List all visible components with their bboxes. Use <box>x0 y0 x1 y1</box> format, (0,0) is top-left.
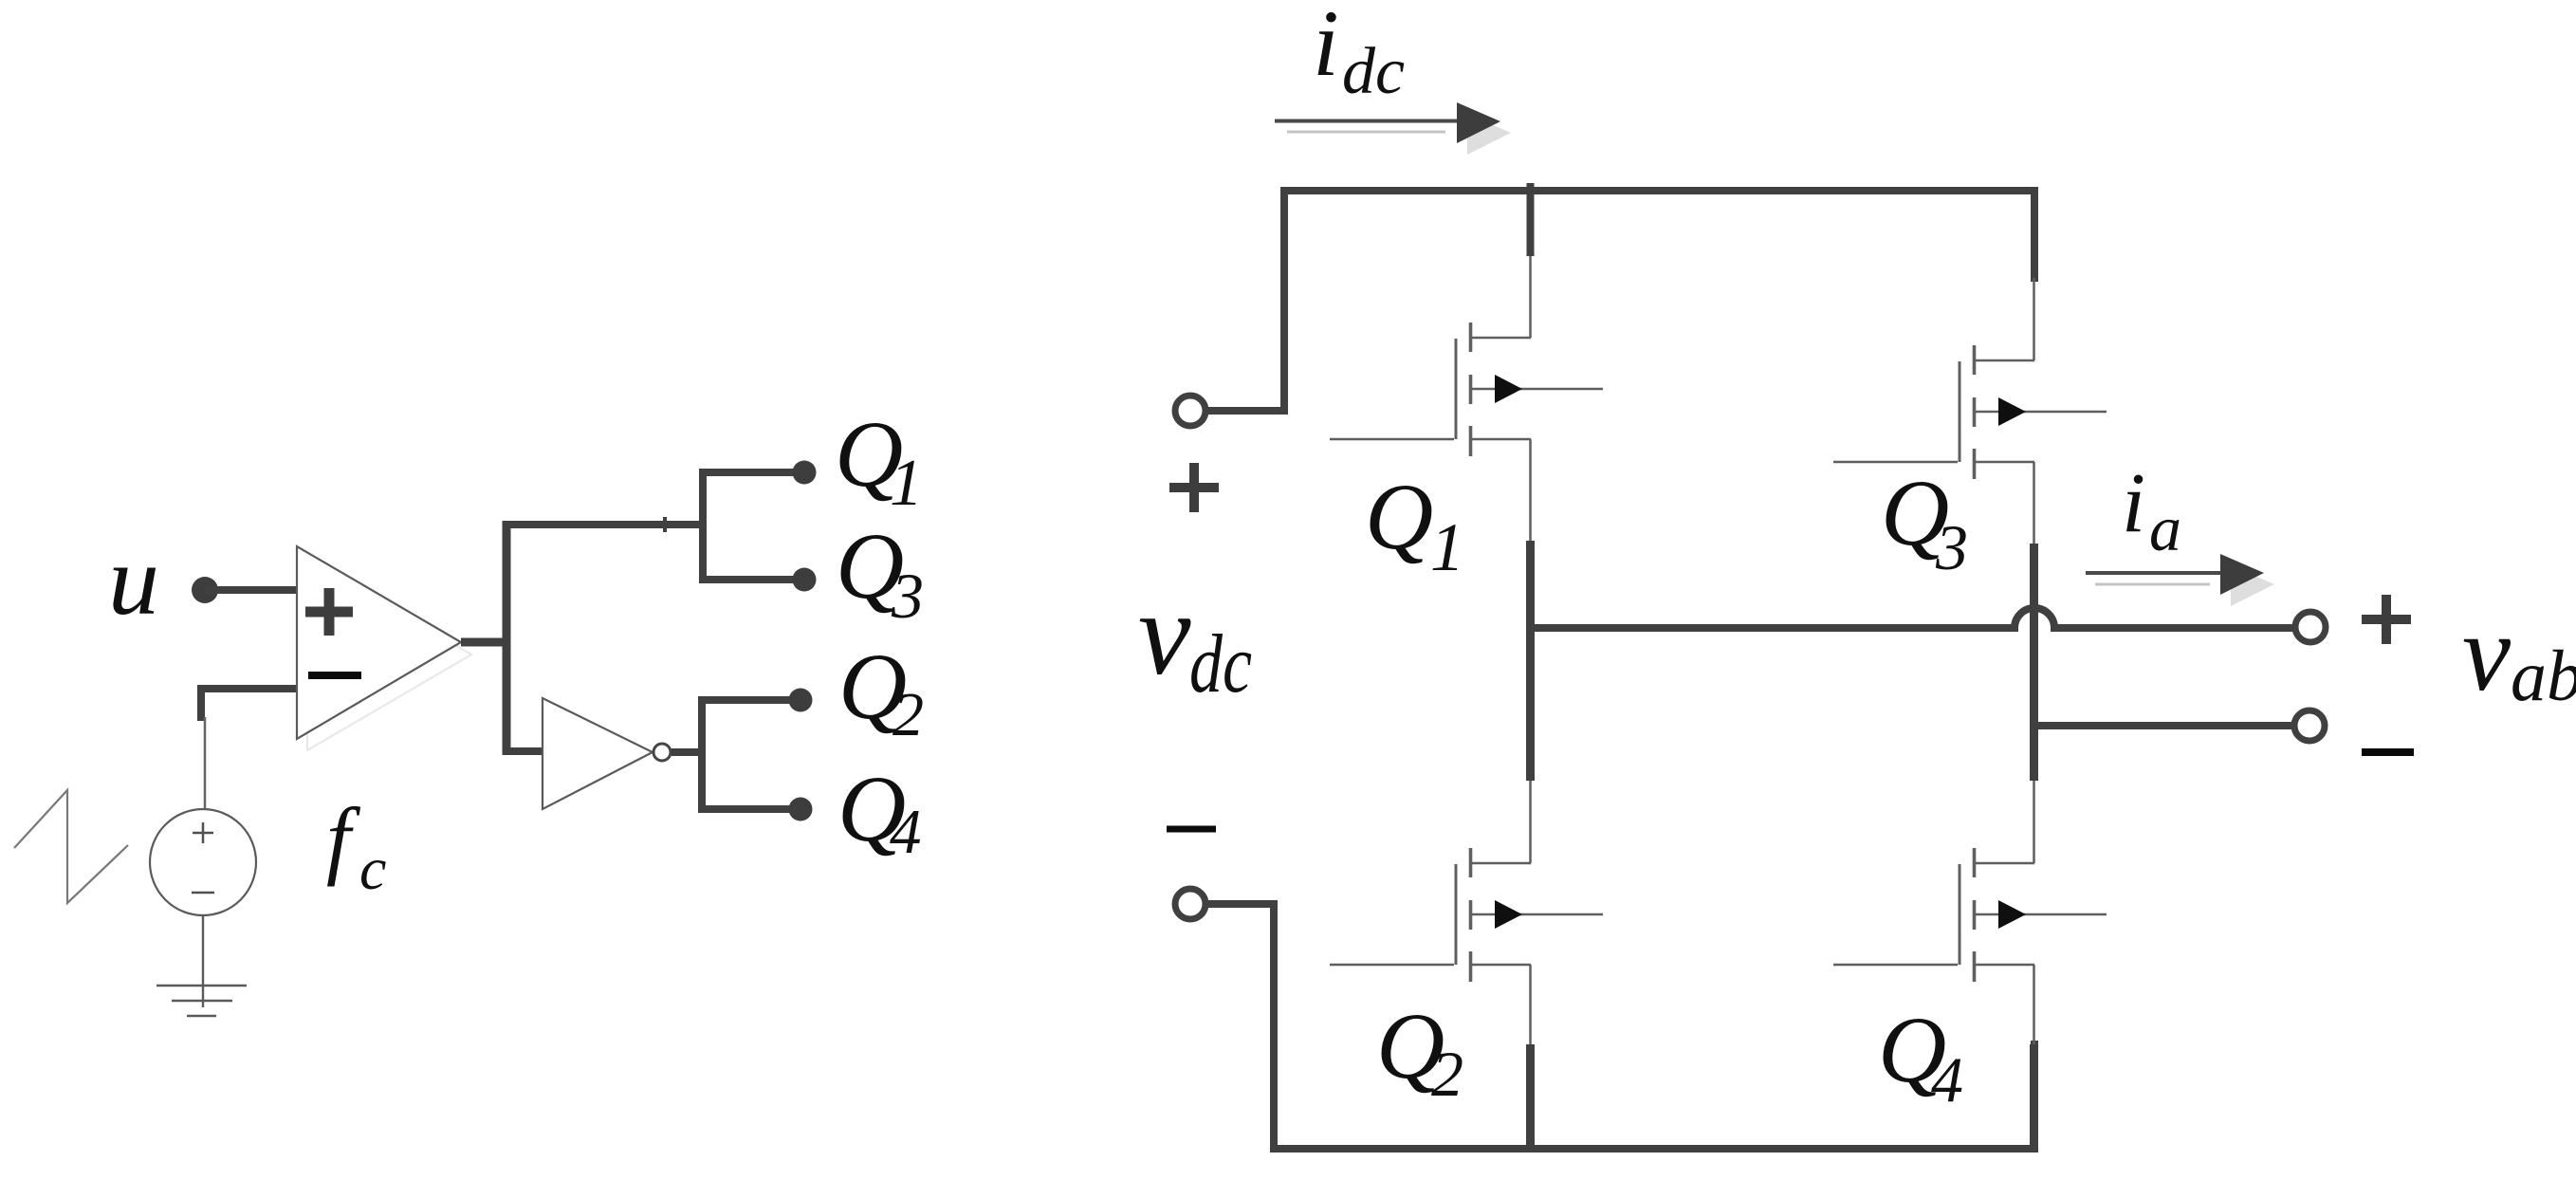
wire node b to terminal <box>2035 722 2293 729</box>
wire node a vertical (Q1 source to Q2 drain) <box>1526 541 1535 781</box>
Q1 gate bar <box>1455 339 1458 439</box>
op-amp comparator shadow <box>307 558 471 750</box>
node Q2 dot <box>789 689 813 712</box>
svg-text:2: 2 <box>1431 1038 1463 1110</box>
inverter triangle <box>543 698 653 809</box>
wire comparator - input <box>201 689 300 721</box>
label Q1 gate <box>835 401 923 520</box>
svg-text:3: 3 <box>1935 511 1968 583</box>
svg-text:1: 1 <box>890 447 923 520</box>
wire comparator output <box>461 638 506 647</box>
Q1 channel dashes <box>1469 323 1473 456</box>
label Q2 <box>1376 993 1463 1110</box>
wire bottom branch to inverter <box>506 747 548 755</box>
svg-text:3: 3 <box>891 560 924 632</box>
wire inverter output <box>672 748 702 756</box>
Q1 gate wire <box>1330 438 1454 441</box>
label Q4 <box>1878 997 1963 1115</box>
transistor Q1 <box>1330 183 1603 543</box>
wire Q2 source to bottom rail <box>1526 1044 1535 1149</box>
node Q4 dot <box>789 798 813 821</box>
source fc circle <box>150 809 256 915</box>
source fc + sign <box>193 822 213 843</box>
svg-text:Q: Q <box>1365 464 1433 569</box>
label Q4 gate <box>837 756 922 867</box>
svg-text:f: f <box>326 790 361 887</box>
arrow i_a <box>2086 554 2274 606</box>
arrow i_dc <box>1275 102 1511 155</box>
svg-text:i: i <box>1313 0 1339 96</box>
wire u to comparator + input <box>205 586 300 594</box>
transistor Q4 <box>1833 781 2107 1044</box>
wire dc- terminal to bottom rail <box>1206 900 1274 908</box>
wire Q1-Q3 vertical <box>699 469 707 583</box>
Q1 source <box>1470 439 1531 543</box>
svg-text:dc: dc <box>1342 35 1405 108</box>
wire - rail bottom <box>1274 900 2034 1149</box>
svg-text:i: i <box>2122 456 2145 550</box>
node Q1 dot <box>793 461 817 485</box>
comparator - input sign <box>308 672 361 679</box>
op-amp comparator triangle <box>297 546 461 739</box>
wire node b vertical (Q3 source to Q4 drain) <box>2030 544 2038 781</box>
wire - input down to source <box>204 717 207 809</box>
svg-text:u: u <box>108 525 159 636</box>
dc+ terminal <box>1175 396 1205 426</box>
wire dc+ terminal to rail <box>1206 407 1288 415</box>
label + dc <box>1169 463 1219 512</box>
label fc <box>326 790 386 902</box>
junction tick top branch <box>663 517 667 532</box>
terminal a <box>2295 612 2326 642</box>
node u dot <box>192 577 218 603</box>
wire + rail top <box>1284 191 2034 415</box>
transistor Q2 <box>1330 781 1603 1044</box>
wire to Q2 dot <box>698 696 800 704</box>
label v_dc <box>1138 569 1252 710</box>
svg-text:a: a <box>2149 492 2181 564</box>
svg-text:dc: dc <box>1189 618 1252 710</box>
svg-text:2: 2 <box>892 680 924 749</box>
label Q2 gate <box>838 634 924 749</box>
comparator + input sign <box>305 588 353 636</box>
label v_ab <box>2462 593 2576 716</box>
dc- terminal <box>1175 889 1205 919</box>
label + ab <box>2362 595 2411 644</box>
svg-text:v: v <box>2462 593 2512 713</box>
label - dc <box>1167 826 1216 833</box>
wire node a to terminal with hop over Q3 leg <box>1531 608 2295 628</box>
sawtooth carrier waveform <box>14 790 128 903</box>
ground <box>156 915 247 1016</box>
label i_dc <box>1313 0 1405 108</box>
svg-text:ab: ab <box>2511 636 2576 716</box>
wire to Q4 dot <box>698 805 800 813</box>
svg-text:c: c <box>359 835 386 902</box>
inverter bubble <box>653 744 671 761</box>
wire to Q3 dot <box>699 576 804 583</box>
label i_a <box>2122 456 2181 564</box>
Q1 drain stub <box>1527 183 1535 256</box>
terminal b <box>2294 710 2325 741</box>
wire output bus vertical <box>503 521 511 755</box>
label Q1 <box>1365 464 1464 585</box>
label Q3 <box>1881 460 1968 583</box>
svg-text:4: 4 <box>890 797 922 867</box>
wire Q4 source to bottom rail <box>2030 1044 2038 1149</box>
Q1 body arrow <box>1471 388 1603 391</box>
svg-text:1: 1 <box>1430 509 1464 585</box>
node Q3 dot <box>793 568 817 592</box>
svg-text:v: v <box>1138 569 1191 700</box>
svg-text:4: 4 <box>1931 1043 1963 1115</box>
wire top branch to Q1 Q3 <box>503 521 704 528</box>
label Q3 gate <box>836 513 924 632</box>
wire to Q1 dot <box>699 469 804 476</box>
label - ab <box>2362 748 2414 756</box>
wire Q2-Q4 vertical <box>698 696 706 813</box>
source fc - sign <box>192 892 214 894</box>
transistor Q3 <box>1833 278 2107 545</box>
